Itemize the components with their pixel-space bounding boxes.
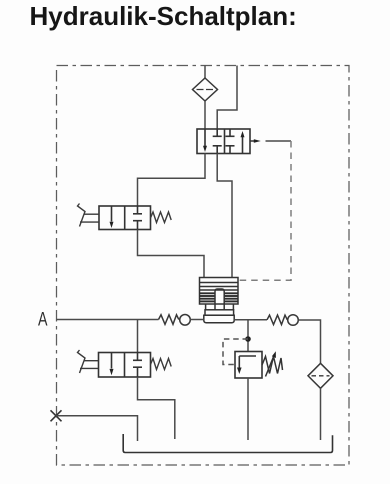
V3 left position: open path arrow down — [111, 353, 113, 369]
wire: node A line from border to throttle D1 — [57, 319, 159, 321]
valve V3 (2/2 lever valve, lower left) — [99, 353, 151, 378]
V3 lever actuator — [78, 350, 99, 373]
wire: RV1 bottom to tank — [247, 378, 249, 440]
V3 return spring — [151, 359, 172, 370]
pilot line from V1 to cylinder (solid then dashed) — [266, 140, 292, 142]
cylinder / control unit Z1 — [200, 278, 239, 323]
Z1 piston rod — [215, 289, 224, 310]
V3 right position: blocked port — [137, 353, 139, 361]
svg-text:A: A — [38, 310, 48, 331]
Z1 base block — [204, 315, 234, 323]
filter F1 (diamond, top) — [193, 78, 218, 101]
V1 left position: open path arrow down — [204, 129, 206, 146]
wire: F2 to tank — [320, 388, 322, 440]
Z1 flange — [205, 310, 234, 315]
V1 pilot actuator arrow (right side) — [250, 139, 261, 143]
V2 right position: blocked port — [137, 206, 139, 214]
pilot dashed line to RV1 — [223, 339, 248, 365]
title — [30, 3, 297, 29]
plugged port X (left) — [51, 410, 62, 421]
V1 left position: blocked port — [216, 129, 218, 136]
wire: V1 bottom-left to V2 top — [138, 154, 206, 207]
valve V1 (2-position directional valve, top) — [197, 129, 250, 154]
orifice B2 (circle) — [288, 315, 299, 326]
V1 right position: open path arrow up — [242, 137, 244, 154]
relief valve RV1 — [235, 352, 262, 379]
wire: V2 bottom to cylinder top-left — [138, 230, 205, 278]
wire: supply from top border down to filter F1 — [204, 66, 206, 79]
filter F2 (diamond, bottom right) — [308, 363, 333, 388]
wire: B1 to cylinder base — [190, 319, 204, 321]
Z1 neck — [205, 304, 207, 310]
wire: junction A-line down to valve V3 — [137, 320, 139, 353]
junction dot (pilot tap) — [245, 336, 251, 342]
V2 return spring — [151, 212, 172, 223]
RV1 adjustable spring — [262, 351, 283, 376]
throttle D1 (spring zigzag) — [159, 315, 179, 325]
wire: cylinder base right to throttle D2 — [234, 319, 267, 321]
V2 left position: open path arrow down — [111, 206, 113, 222]
wire: B2 to filter F2 — [298, 320, 320, 363]
throttle D2 (spring zigzag) — [267, 315, 287, 325]
wire: V1 bottom-right to cylinder top-right — [217, 154, 232, 278]
wire: V3 bottom jog to tank — [138, 377, 175, 439]
wire: plugged port line to tank — [56, 416, 138, 441]
wire: junction down to relief valve RV1 — [247, 320, 249, 352]
tank manifold — [123, 434, 332, 453]
V2 lever actuator — [78, 204, 100, 227]
orifice B1 (circle) — [180, 315, 191, 326]
dashed enclosure border — [57, 66, 350, 466]
wire: filter F1 to valve V1 top-left port — [204, 101, 206, 129]
V1 right position: blocked port — [229, 129, 231, 136]
wire: top border to V1 top (jog at y110) — [217, 66, 237, 130]
valve V2 (2/2 lever valve, upper left) — [99, 206, 151, 230]
